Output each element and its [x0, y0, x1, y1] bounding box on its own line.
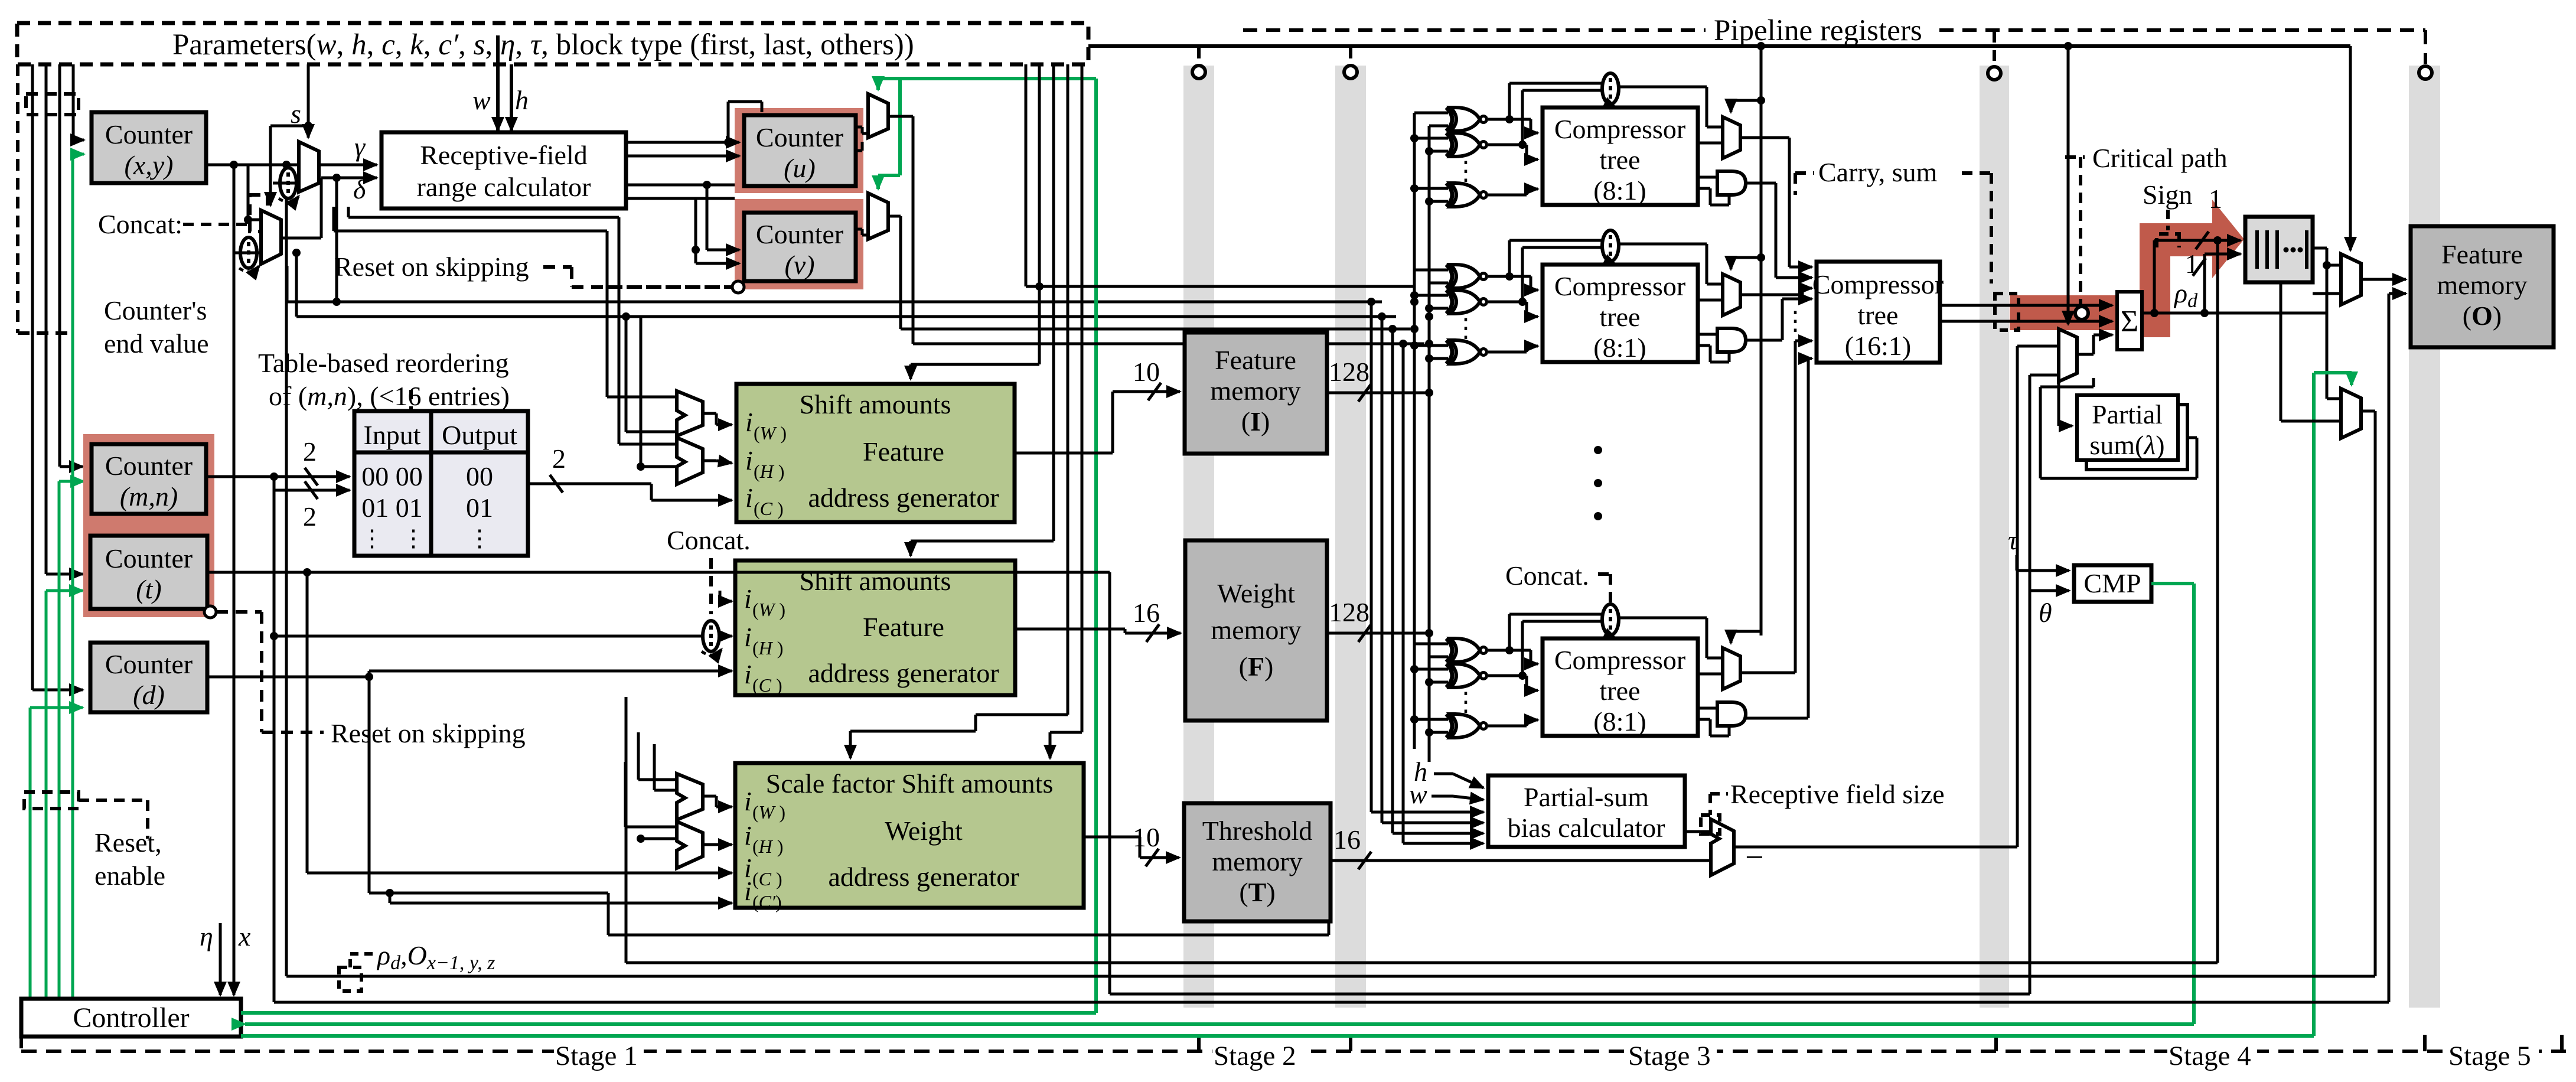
red highlight (u) [735, 108, 863, 193]
svg-text:Sign: Sign [2143, 180, 2192, 210]
svg-text:Stage 2: Stage 2 [1214, 1041, 1296, 1071]
svg-text:Weight: Weight [885, 816, 963, 846]
svg-text:Concat:: Concat: [98, 209, 182, 239]
counter (u) [744, 115, 856, 186]
16 bus into F [1015, 624, 1181, 642]
10 bus into T [1084, 837, 1179, 866]
concat oval on mux1 [280, 168, 296, 198]
svg-text:i: i [744, 584, 752, 614]
top solid distribution line [1088, 44, 2350, 48]
svg-text:memory: memory [1211, 615, 1301, 645]
svg-text:Stage 1: Stage 1 [555, 1041, 638, 1071]
pipeline registers dashed label line [1243, 30, 2425, 64]
svg-text:θ: θ [2039, 598, 2052, 628]
sigma output wires [2142, 232, 2327, 313]
svg-text:128: 128 [1329, 597, 1369, 627]
wires below RF calc [334, 207, 619, 444]
mux 2 input tee [247, 165, 250, 220]
svg-text:Feature: Feature [863, 612, 944, 642]
svg-text:range calculator: range calculator [417, 172, 591, 202]
mux2 output up to delta input [281, 165, 1396, 317]
svg-text:i: i [744, 622, 752, 652]
compressor cluster 2 [1410, 230, 1761, 364]
svg-text:2: 2 [552, 444, 566, 474]
reset on skipping dashed into v [607, 285, 732, 289]
svg-text:Shift amounts: Shift amounts [800, 566, 951, 596]
svg-text:w: w [472, 85, 491, 115]
mux 1 (s) [299, 142, 319, 192]
svg-text:(H ): (H ) [752, 836, 783, 857]
svg-text:Counter: Counter [756, 219, 843, 249]
svg-text:1: 1 [2185, 249, 2199, 279]
svg-text:Reset on skipping: Reset on skipping [334, 252, 529, 282]
counter (m,n) [92, 444, 206, 514]
compressor cluster 1 [1410, 73, 1761, 207]
svg-text:Receptive field size: Receptive field size [1730, 779, 1945, 809]
svg-text:sum(λ): sum(λ) [2089, 430, 2164, 460]
svg-text:(H ): (H ) [752, 637, 783, 659]
svg-text:10: 10 [1133, 822, 1160, 852]
svg-text:(W ): (W ) [754, 422, 787, 444]
counter (v) [744, 213, 856, 281]
svg-text:Carry, sum: Carry, sum [1818, 157, 1938, 187]
cluster outputs to 16:1 [1740, 138, 1812, 718]
svg-text:(W ): (W ) [752, 599, 785, 620]
svg-text:(v): (v) [784, 250, 814, 280]
svg-text:Counter: Counter [756, 122, 843, 152]
svg-text:γ: γ [354, 132, 366, 162]
weight memory F [1185, 540, 1327, 721]
svg-text:x: x [238, 921, 251, 951]
green bottom buses [241, 1013, 2314, 1036]
svg-text:memory: memory [1210, 376, 1300, 406]
svg-text:16: 16 [1133, 598, 1160, 628]
svg-text:(F): (F) [1239, 651, 1274, 682]
svg-text:i: i [744, 659, 752, 689]
pipeline register bar 3 [1980, 66, 2009, 1008]
svg-text:Counter: Counter [105, 451, 193, 481]
svg-text:Concat.: Concat. [1505, 560, 1589, 591]
pipeline select vertical [1760, 46, 1763, 635]
pipeline register bar 4 [2409, 66, 2440, 1008]
feature memory I [1185, 333, 1327, 454]
svg-text:Reset,: Reset, [94, 827, 162, 858]
green wires for u/v muxes [878, 79, 1096, 1013]
arrows into addr3 top [850, 715, 1082, 758]
svg-text:⋮: ⋮ [1782, 307, 1808, 335]
svg-text:(u): (u) [784, 153, 816, 183]
svg-text:memory: memory [2437, 270, 2527, 300]
rho_d O label and tap [339, 954, 374, 991]
svg-text:(16:1): (16:1) [1845, 331, 1911, 361]
svg-text:Stage 5: Stage 5 [2448, 1041, 2531, 1071]
counter (x,y) [92, 112, 206, 183]
svg-text:Compressor: Compressor [1812, 269, 1944, 299]
svg-text:Scale factor Shift amounts: Scale factor Shift amounts [766, 768, 1054, 799]
svg-text:w: w [1409, 779, 1427, 809]
svg-text:memory: memory [1212, 846, 1302, 876]
svg-text:Feature: Feature [1215, 345, 1296, 375]
compressor tree 16:1 [1812, 262, 1944, 363]
svg-text:Receptive-field: Receptive-field [420, 140, 588, 170]
svg-text:00 00: 00 00 [361, 461, 423, 491]
receptive-field range calculator [381, 132, 626, 208]
svg-text:(O): (O) [2463, 301, 2502, 331]
mux u/v outputs [888, 116, 1424, 344]
svg-text:i: i [745, 445, 753, 475]
reset on skipping (lower) [204, 606, 216, 618]
svg-text:Shift amounts: Shift amounts [800, 389, 951, 419]
svg-text:Counter: Counter [105, 649, 193, 679]
svg-text:Feature: Feature [863, 436, 944, 467]
wires around partial sum [2040, 378, 2197, 478]
top line down to mux A [2349, 46, 2352, 250]
svg-text:(C ): (C ) [752, 868, 782, 889]
reorder table [354, 411, 528, 556]
input arrows into u [696, 102, 762, 263]
arrow into addr2 top [911, 541, 1054, 556]
mux A [2341, 254, 2361, 305]
left dashed vertical from params box [18, 64, 79, 333]
shift register block [2245, 217, 2313, 282]
svg-text:⋮: ⋮ [402, 525, 425, 552]
svg-text:(d): (d) [133, 680, 165, 710]
threshold memory T [1184, 803, 1331, 921]
svg-text:00: 00 [466, 461, 493, 491]
small muxes left of addr1 [677, 391, 703, 436]
mux B with green select [2341, 389, 2361, 438]
mux for u [868, 94, 888, 138]
svg-text:i: i [745, 483, 753, 513]
svg-text:of (m,n), (<16 entries): of (m,n), (<16 entries) [269, 381, 510, 411]
svg-text:h: h [515, 85, 529, 115]
svg-text:(x,y): (x,y) [125, 150, 174, 180]
svg-text:2: 2 [303, 436, 317, 467]
svg-text:2: 2 [303, 501, 317, 532]
svg-text:δ: δ [353, 174, 366, 204]
stage labels [554, 1041, 2539, 1068]
svg-text:CMP: CMP [2083, 568, 2141, 598]
CMP green output [2151, 584, 2194, 1024]
stage boundary dashed line [21, 1035, 2566, 1051]
dashed drops with circles to bars [1199, 32, 1994, 65]
counter (t) [90, 536, 207, 609]
svg-text:i: i [745, 407, 753, 437]
svg-text:address generator: address generator [808, 483, 999, 513]
svg-text:1: 1 [2209, 184, 2222, 214]
svg-text:Reset on skipping: Reset on skipping [331, 718, 526, 748]
partial sum block with shadow [2077, 395, 2187, 470]
dashed stub above table [409, 390, 413, 410]
svg-text:01: 01 [466, 493, 493, 523]
svg-text:Output: Output [442, 420, 517, 450]
svg-text:01 01: 01 01 [361, 493, 423, 523]
svg-text:Pipeline registers: Pipeline registers [1714, 14, 1922, 47]
pipeline register bar 1 [1183, 66, 1214, 1008]
svg-text:Partial: Partial [2092, 399, 2163, 429]
svg-text:Counter's: Counter's [104, 295, 207, 325]
repetition dots between clusters [1594, 446, 1602, 454]
svg-text:128: 128 [1329, 357, 1369, 387]
concat oval on mux2 [240, 237, 257, 268]
red highlight behind counters (m,n) and (t) [83, 434, 214, 617]
16:1 outputs through bar3 to sigma [1940, 305, 2112, 321]
left black verticals from parameters [32, 64, 84, 690]
svg-text:enable: enable [94, 861, 165, 891]
select vertical into sigma mux [2067, 46, 2070, 324]
bias mux [1711, 819, 1734, 875]
svg-text:tree: tree [1858, 300, 1899, 330]
sigma block [2117, 292, 2142, 350]
RF calc outputs [626, 142, 735, 198]
svg-text:Weight: Weight [1217, 578, 1295, 608]
svg-text:(H ): (H ) [754, 461, 784, 482]
svg-text:(W ): (W ) [752, 801, 785, 823]
svg-text:Counter: Counter [105, 543, 193, 573]
svg-text:end value: end value [104, 328, 209, 359]
controller box [21, 999, 241, 1037]
svg-text:Partial-sum: Partial-sum [1524, 782, 1649, 812]
shift reg out to mux A [2313, 248, 2341, 399]
svg-text:i: i [744, 786, 752, 816]
svg-text:−: − [1745, 839, 1764, 876]
svg-text:(C ): (C ) [754, 498, 784, 519]
svg-text:Concat.: Concat. [667, 525, 751, 555]
counter (m,n) output wires into table [206, 468, 350, 499]
addr2 input wires [274, 591, 732, 677]
svg-text:address generator: address generator [808, 658, 999, 688]
svg-text:(m,n): (m,n) [120, 481, 178, 511]
svg-text:⋮: ⋮ [360, 525, 384, 552]
svg-text:10: 10 [1133, 357, 1160, 387]
svg-text:16: 16 [1333, 824, 1361, 855]
svg-text:Threshold: Threshold [1202, 816, 1313, 846]
svg-text:Input: Input [363, 420, 420, 450]
svg-text:(C ): (C ) [752, 674, 782, 696]
svg-text:Counter: Counter [105, 119, 193, 149]
svg-text:(I): (I) [1241, 406, 1270, 436]
10 bus into I [1015, 383, 1180, 453]
pipeline register bar 2 [1335, 66, 1366, 1008]
svg-text:(C′): (C′) [752, 891, 782, 912]
register tap circles on pipeline bars [1192, 66, 1205, 79]
select junction dots [1757, 96, 1765, 105]
reset-enable dashed tap on green wires [24, 792, 148, 839]
svg-text:Feature: Feature [2441, 239, 2523, 269]
arrow into addr1 top [911, 364, 1039, 379]
svg-text:bias calculator: bias calculator [1508, 813, 1665, 843]
svg-text:Σ: Σ [2121, 305, 2138, 338]
128 bus out of I [1327, 384, 1429, 402]
svg-text:(T): (T) [1239, 877, 1275, 907]
svg-text:η: η [200, 921, 213, 951]
junction on distribution line [1757, 42, 1765, 50]
svg-text:i: i [744, 820, 752, 850]
svg-text:Stage 3: Stage 3 [1628, 1041, 1711, 1071]
left green verticals from controller [30, 154, 84, 999]
svg-text:Stage 4: Stage 4 [2169, 1041, 2251, 1071]
mux A output into memory O [2361, 279, 2406, 1002]
svg-text:⋮: ⋮ [468, 525, 491, 552]
svg-text:Controller: Controller [73, 1002, 189, 1034]
parameters box [17, 23, 1088, 64]
16 bus out of T [1331, 852, 1711, 869]
table output wire [528, 475, 651, 500]
128 bus out of F [1327, 624, 1429, 642]
svg-text:Critical path: Critical path [2092, 143, 2228, 173]
svg-text:s: s [291, 99, 301, 129]
svg-text:Parameters(w, h, c, k, c′, s,: Parameters(w, h, c, k, c′, s, η, τ, bloc… [172, 28, 914, 61]
mux 2 [261, 210, 281, 264]
mux for v [868, 193, 888, 239]
counter (x,y) output wire [206, 165, 307, 1002]
red highlight (v) [735, 199, 863, 289]
small muxes left of addr3 [677, 774, 703, 820]
feature memory O [2411, 226, 2554, 347]
dashed tap on sigma inputs [1995, 294, 2019, 330]
counter (d) [90, 643, 207, 712]
svg-text:(t): (t) [136, 574, 161, 604]
svg-text:address generator: address generator [828, 862, 1019, 892]
compressor cluster 3 [1410, 604, 1761, 738]
svg-text:Table-based reordering: Table-based reordering [258, 348, 509, 378]
svg-text:i: i [744, 876, 752, 906]
sigma mux (lower-left of sigma) [2059, 329, 2077, 382]
